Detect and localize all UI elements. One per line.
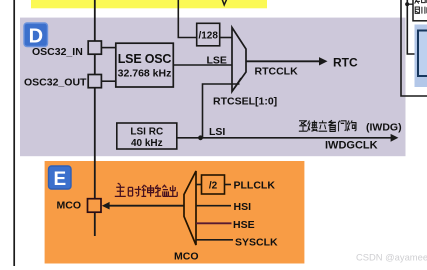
wire: HSE input (maroon): [196, 222, 232, 224]
svg-text:OSC32_OUT: OSC32_OUT: [24, 77, 87, 89]
wire: OSC32 / MCO vertical line: [94, 0, 96, 236]
svg-text:HSE: HSE: [233, 219, 255, 231]
badge D: [24, 23, 48, 48]
annotation callout box (cropped top-right) with hanzi: [413, 0, 427, 21]
svg-text:(IWDG): (IWDG): [366, 122, 402, 134]
svg-text:RTC: RTC: [333, 56, 358, 70]
yellow highlight strip (top, cropped): [31, 0, 267, 8]
wire: mux to /2: [196, 184, 202, 186]
mux RTCSEL (RTC clock mux): [232, 28, 246, 92]
wire: MCO output arrow (mux to pin): [108, 205, 184, 207]
狗: [347, 120, 356, 131]
pin MCO: [88, 199, 102, 213]
svg-text:SYSCLK: SYSCLK: [235, 236, 278, 248]
wire: pin OSC32_OUT to LSE OSC: [101, 80, 115, 82]
wire: HSE feed to /128 (vertical from top): [178, 0, 196, 38]
svg-text:OSC32_IN: OSC32_IN: [32, 46, 83, 58]
badge E: [49, 166, 72, 190]
bus slash mark in yellow strip: [222, 0, 226, 5]
region E background (orange): [45, 161, 305, 264]
divider /128 box: [197, 23, 220, 46]
node junction dot on line B: [405, 2, 409, 6]
svg-text:LSE OSC: LSE OSC: [118, 52, 172, 66]
独: [308, 120, 318, 131]
oscillator LSE OSC box: [116, 43, 174, 87]
wire: /128 output to RTC mux: [220, 37, 232, 39]
svg-text:CSDN @ayamee: CSDN @ayamee: [356, 251, 427, 262]
主: [115, 183, 126, 196]
svg-text:32.768 kHz: 32.768 kHz: [118, 68, 172, 80]
svg-text:/128: /128: [198, 31, 218, 42]
wire: LSI branch up into RTC mux with bus slash: [203, 84, 240, 138]
看: [328, 120, 336, 131]
svg-text:RTCSEL[1:0]: RTCSEL[1:0]: [213, 96, 277, 108]
出: [168, 185, 177, 196]
svg-text:LSE: LSE: [207, 55, 227, 67]
svg-text:MCO: MCO: [174, 251, 199, 263]
outer diagram border line (left): [13, 0, 15, 266]
输: [155, 185, 168, 197]
wire: RTCCLK output arrow to RTC: [246, 60, 320, 62]
时: [128, 186, 141, 196]
svg-text:D: D: [29, 26, 43, 48]
wire: pin OSC32_IN to LSE OSC: [101, 47, 115, 49]
wire: /2 to PLLCLK: [225, 184, 232, 186]
label 主时钟输出 (main clock output): [115, 183, 177, 196]
register box (dark blue border, cropped): [418, 31, 427, 77]
node junction dot LSI: [198, 135, 203, 140]
门: [339, 121, 347, 132]
svg-text:LSI: LSI: [209, 126, 225, 138]
light blue block (cropped right): [415, 25, 427, 88]
wire: right vertical line A bending right: [401, 0, 427, 96]
svg-text:/2: /2: [209, 181, 218, 192]
wire: right vertical line B into register box: [407, 0, 418, 54]
svg-text:IWDGCLK: IWDGCLK: [325, 140, 378, 152]
svg-text:E: E: [53, 169, 66, 190]
region D background (backup domain, lavender): [20, 18, 406, 157]
wire: SYSCLK input: [196, 239, 233, 241]
pin OSC32_IN: [88, 41, 101, 54]
wire: HSI input: [196, 205, 231, 207]
svg-text:LSI RC: LSI RC: [130, 127, 163, 138]
divider /2 box: [202, 175, 225, 194]
pin OSC32_OUT: [88, 75, 101, 88]
label 至独立看门狗 (IWDG): [299, 120, 356, 131]
wire: LSE line to RTC mux: [173, 64, 232, 66]
oscillator LSI RC box: [117, 123, 177, 149]
钟: [141, 185, 153, 197]
wire: LSI line to IWDG with arrow: [177, 137, 391, 139]
mux MCO (main clock output mux): [184, 171, 196, 245]
svg-text:HSI: HSI: [234, 201, 252, 213]
至: [299, 121, 307, 131]
svg-text:MCO: MCO: [57, 199, 82, 211]
svg-text:40 kHz: 40 kHz: [131, 138, 163, 149]
svg-text:RTCCLK: RTCCLK: [255, 66, 299, 78]
svg-text:PLLCLK: PLLCLK: [234, 180, 276, 192]
立: [318, 120, 327, 131]
